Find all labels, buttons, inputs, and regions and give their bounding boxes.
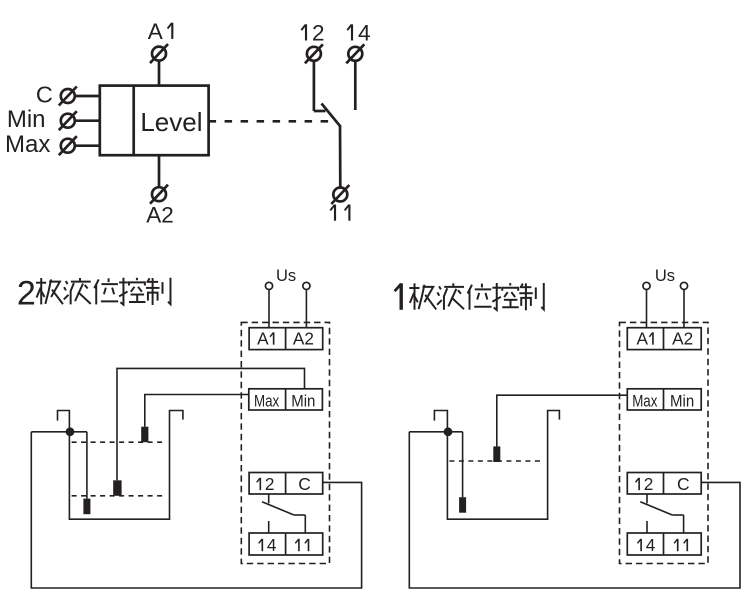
svg-text:2: 2: [312, 21, 325, 46]
Max electrode wire right: [497, 395, 628, 446]
dashed control link: [209, 120, 337, 123]
relay body divider: [132, 86, 135, 156]
contact arm right: [640, 502, 672, 515]
terminal A2: [150, 155, 168, 204]
relay dashed outline right: [620, 322, 709, 563]
terminal block 12 C right: [627, 473, 701, 495]
low water line: [72, 495, 163, 497]
svg-text:2: 2: [265, 474, 275, 494]
terminal A1: [150, 44, 168, 86]
high water line: [72, 441, 163, 443]
common electrode tip: [83, 499, 90, 515]
tank walls right: [434, 411, 559, 520]
terminal C: [59, 87, 100, 106]
cell label 14 right: [638, 539, 642, 551]
terminal block 14 11 right: [627, 533, 701, 555]
terminal block A1 A2: [249, 328, 323, 350]
svg-text:A2: A2: [672, 329, 693, 349]
svg-text:C: C: [677, 474, 690, 494]
terminal block A1 A2 right: [627, 328, 701, 350]
wire to 11 cell: [304, 515, 306, 533]
contact stub from 12: [268, 494, 270, 503]
svg-text:Max: Max: [254, 392, 279, 410]
cell label 12 right: [636, 478, 640, 490]
svg-text:C: C: [36, 81, 53, 107]
svg-text:C: C: [298, 474, 311, 494]
svg-text:4: 4: [267, 535, 277, 555]
common wire right: [409, 431, 462, 433]
relay dashed outline: [241, 322, 329, 563]
label 12: [301, 24, 306, 40]
Us terminal circles left: [265, 282, 272, 289]
svg-text:2: 2: [644, 474, 654, 494]
contact arm: [262, 502, 294, 515]
terminal Min: [59, 111, 100, 130]
wire to 11: [339, 125, 342, 187]
title chars 1-pole: [409, 283, 436, 309]
svg-text:A: A: [148, 19, 163, 44]
svg-text:Us: Us: [655, 267, 675, 285]
junction dot right: [444, 427, 453, 436]
cell label 14: [259, 539, 263, 551]
C return loop: [31, 432, 361, 588]
terminal 14: [346, 44, 364, 110]
Max electrode wire: [145, 395, 249, 427]
svg-text:Min: Min: [670, 392, 694, 410]
Min electrode tip: [113, 480, 121, 496]
svg-text:A: A: [257, 329, 269, 349]
cell label 12: [257, 478, 261, 490]
stub to 14 cell: [268, 521, 270, 533]
common electrode drop: [86, 432, 88, 499]
junction dot: [66, 427, 75, 436]
Us terminal circles right: [643, 282, 650, 289]
wire to 11 cell right: [683, 515, 685, 533]
contact seat jog: [314, 110, 326, 113]
svg-text:A: A: [636, 329, 648, 349]
svg-text:Min: Min: [291, 392, 315, 410]
svg-text:A2: A2: [146, 202, 174, 227]
svg-text:4: 4: [646, 535, 656, 555]
svg-text:2: 2: [17, 275, 36, 313]
cell label 11 right: [674, 539, 687, 551]
contact arm horizontal right: [672, 514, 683, 516]
tank walls: [58, 411, 183, 520]
Min electrode wire: [117, 368, 305, 480]
terminal Max: [59, 136, 100, 155]
Max electrode tip right: [493, 446, 500, 462]
terminal 12: [305, 44, 323, 111]
svg-text:A2: A2: [293, 329, 314, 349]
contact arm: [322, 104, 341, 127]
terminal block 14 11: [249, 533, 323, 555]
svg-text:4: 4: [358, 21, 371, 46]
C return loop right: [409, 432, 740, 588]
label 11: [330, 205, 349, 221]
stub to 14 cell right: [646, 521, 648, 533]
contact arm horizontal: [294, 514, 305, 516]
terminal 11: [331, 185, 349, 204]
contact stub from 12 right: [646, 494, 648, 503]
svg-text:Level: Level: [140, 107, 202, 137]
svg-text:Us: Us: [276, 267, 296, 285]
Us supply wires: [268, 289, 270, 327]
common electrode drop right: [462, 432, 464, 497]
Us supply wires right: [646, 289, 648, 327]
svg-text:Min: Min: [7, 106, 46, 133]
common electrode tip right: [459, 497, 466, 513]
terminal block Max Min: [249, 389, 323, 410]
label 14: [347, 24, 352, 40]
terminal block Max Min right: [627, 389, 701, 410]
Max electrode tip: [141, 427, 148, 443]
common wire: [31, 431, 87, 433]
cell label 11: [295, 539, 308, 551]
terminal block 12 C: [249, 473, 323, 495]
svg-text:Max: Max: [5, 131, 50, 158]
relay body box: [100, 86, 209, 156]
title chars 2-pole: [36, 278, 63, 304]
svg-text:Max: Max: [632, 392, 657, 410]
water line right: [449, 460, 541, 462]
title digit 1: [395, 283, 402, 310]
